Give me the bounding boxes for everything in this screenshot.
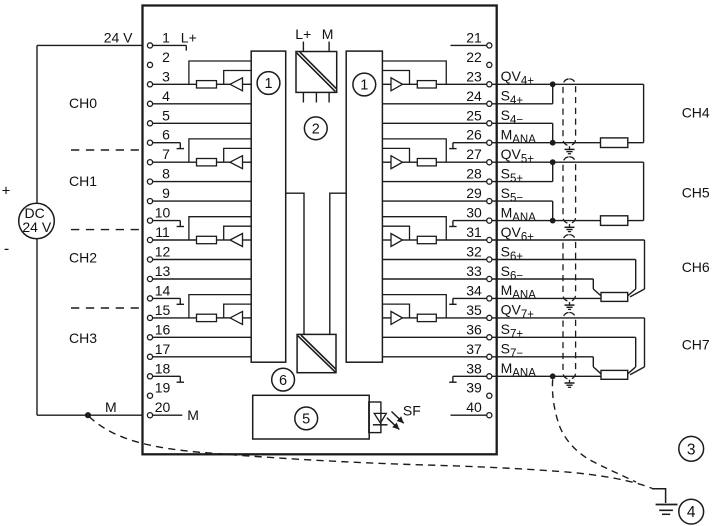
svg-text:5: 5 (302, 412, 310, 428)
svg-text:M: M (322, 26, 334, 42)
svg-text:31: 31 (466, 224, 482, 240)
svg-text:4: 4 (162, 88, 170, 104)
svg-text:12: 12 (155, 244, 171, 260)
svg-text:35: 35 (466, 302, 482, 318)
svg-text:30: 30 (466, 205, 482, 221)
svg-text:7: 7 (162, 146, 170, 162)
svg-text:SF: SF (403, 403, 421, 419)
svg-text:9: 9 (162, 185, 170, 201)
svg-text:19: 19 (155, 380, 171, 396)
svg-text:CH5: CH5 (682, 185, 710, 201)
svg-text:37: 37 (466, 341, 482, 357)
svg-text:L+: L+ (295, 26, 311, 42)
svg-text:21: 21 (466, 29, 482, 45)
svg-text:14: 14 (155, 282, 171, 298)
svg-text:3: 3 (687, 441, 696, 458)
svg-text:L+: L+ (181, 30, 197, 46)
svg-text:1: 1 (264, 76, 272, 92)
svg-text:5: 5 (162, 107, 170, 123)
svg-text:CH6: CH6 (682, 259, 710, 275)
svg-text:16: 16 (155, 321, 171, 337)
svg-text:29: 29 (466, 185, 482, 201)
svg-text:24: 24 (466, 88, 482, 104)
svg-text:15: 15 (155, 302, 171, 318)
svg-text:27: 27 (466, 146, 482, 162)
svg-text:4: 4 (687, 504, 696, 521)
svg-text:CH7: CH7 (682, 337, 710, 353)
svg-text:13: 13 (155, 263, 171, 279)
svg-text:17: 17 (155, 341, 171, 357)
svg-text:33: 33 (466, 263, 482, 279)
svg-text:34: 34 (466, 282, 482, 298)
svg-text:24 V: 24 V (22, 219, 51, 235)
svg-text:6: 6 (162, 127, 170, 143)
svg-text:CH3: CH3 (69, 330, 97, 346)
svg-text:25: 25 (466, 107, 482, 123)
svg-text:20: 20 (155, 399, 171, 415)
svg-text:CH4: CH4 (682, 105, 710, 121)
svg-text:3: 3 (162, 68, 170, 84)
svg-text:6: 6 (279, 373, 287, 389)
svg-text:38: 38 (466, 360, 482, 376)
svg-text:32: 32 (466, 244, 482, 260)
svg-text:23: 23 (466, 68, 482, 84)
svg-text:M: M (105, 399, 117, 415)
svg-text:24 V: 24 V (104, 30, 133, 46)
svg-text:40: 40 (466, 399, 482, 415)
svg-text:8: 8 (162, 166, 170, 182)
svg-text:-: - (4, 241, 9, 258)
svg-text:CH2: CH2 (69, 250, 97, 266)
svg-text:36: 36 (466, 321, 482, 337)
svg-text:2: 2 (162, 49, 170, 65)
svg-text:CH0: CH0 (69, 95, 97, 111)
svg-text:1: 1 (360, 78, 368, 94)
svg-text:11: 11 (155, 224, 170, 240)
svg-text:28: 28 (466, 166, 482, 182)
svg-text:26: 26 (466, 127, 482, 143)
svg-text:1: 1 (162, 29, 170, 45)
svg-text:+: + (2, 183, 11, 200)
svg-text:CH1: CH1 (69, 173, 97, 189)
svg-text:39: 39 (466, 380, 482, 396)
svg-text:2: 2 (312, 122, 320, 138)
svg-text:10: 10 (155, 205, 171, 221)
svg-text:22: 22 (466, 49, 482, 65)
svg-text:M: M (187, 407, 199, 423)
svg-text:18: 18 (155, 360, 171, 376)
